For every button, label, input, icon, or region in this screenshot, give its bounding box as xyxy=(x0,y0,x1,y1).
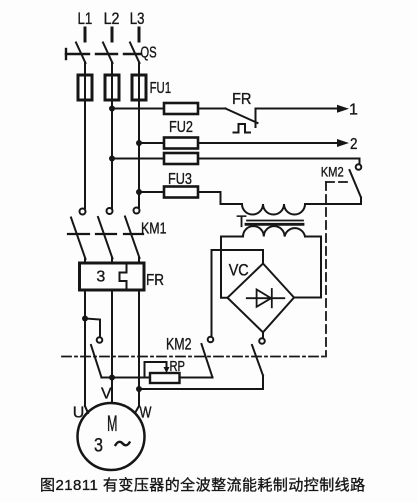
node junction L3 line2 xyxy=(136,140,142,146)
fuse FU2a on line1 xyxy=(164,103,198,114)
rheostat RP tap xyxy=(145,362,167,378)
wire line3 to KM2 contact xyxy=(198,159,360,165)
contact KM2 bottom-right blade xyxy=(252,345,263,376)
svg-text:VC: VC xyxy=(229,262,249,280)
wire line2 left xyxy=(139,142,164,144)
rectifier VC bridge diamond xyxy=(228,264,295,333)
svg-text:L3: L3 xyxy=(130,10,145,28)
relay FR thermal box xyxy=(80,263,145,290)
contactor KM1 pole 3 blade xyxy=(125,217,140,259)
wire U lead into motor xyxy=(85,406,88,413)
arrow terminal 1 xyxy=(337,105,349,113)
wire line4 left xyxy=(139,191,164,193)
wire L1 top stub xyxy=(84,28,87,41)
svg-text:L2: L2 xyxy=(104,10,120,28)
svg-text:FU1: FU1 xyxy=(150,80,172,97)
node junction U braking branch xyxy=(82,316,88,322)
wire line1 fuse to FR contact xyxy=(198,108,226,110)
switch QS pole 2 blade xyxy=(103,43,113,64)
wire W phase below FR box xyxy=(138,290,140,406)
node junction L3 line4 xyxy=(136,189,142,195)
wire L3 FU1 to KM1 xyxy=(138,100,140,207)
contactor KM1 pole 2 blade xyxy=(98,217,113,259)
wire KM1 to FR box pole1 xyxy=(84,259,86,263)
wire line4 step to transformer primary xyxy=(198,192,242,204)
wire braking rail right xyxy=(180,377,213,379)
svg-text:图21811 有变压器的全波整流能耗制动控制线路: 图21811 有变压器的全波整流能耗制动控制线路 xyxy=(40,476,366,494)
svg-text:KM2: KM2 xyxy=(166,336,192,354)
node junction L2 line1 xyxy=(109,106,115,112)
wire dash-dot KM2 linkage bottom xyxy=(62,356,326,358)
fuse FU3b on line4 xyxy=(164,187,198,198)
wire L3 QS to FU1 xyxy=(138,63,140,76)
contact KM2 bottom-left terminal circle xyxy=(97,337,103,343)
wire line2 to arrow 2 xyxy=(198,142,339,144)
fuse FU1 pole 3 xyxy=(132,75,146,100)
switch QS linkage bar xyxy=(66,49,141,59)
contact FR normally-closed blade xyxy=(226,109,258,124)
arrow terminal 2 xyxy=(337,139,349,147)
wire KM1 to FR box pole2 xyxy=(111,259,113,264)
wire KM2 right blade to W rail xyxy=(139,376,263,390)
wire bridge DC+ top corner to KM2 middle contact xyxy=(212,250,264,337)
svg-text:2: 2 xyxy=(350,136,358,153)
switch QS pole 3 blade xyxy=(130,43,140,64)
svg-text:W: W xyxy=(140,405,153,422)
svg-text:KM2: KM2 xyxy=(321,164,344,180)
contact FR thermal element symbol xyxy=(234,124,251,133)
diode inside bridge xyxy=(247,297,284,299)
svg-text:QS: QS xyxy=(140,45,156,62)
wire branch U to KM2 left contact xyxy=(85,319,100,338)
wire secondary left to bridge left corner xyxy=(221,237,243,298)
contactor KM1 pole 1 blade xyxy=(71,218,86,260)
wire V phase below FR box xyxy=(111,290,113,403)
contact KM2 bottom-left blade xyxy=(91,345,102,378)
wire KM1 to FR box pole3 xyxy=(138,258,140,263)
label tilde xyxy=(116,442,130,445)
contactor KM1 linkage dashes xyxy=(68,233,143,235)
contact KM2 bottom-middle terminal circle xyxy=(208,337,214,343)
wire secondary right to bridge right corner xyxy=(294,237,321,298)
wire L1 FU1 to KM1 xyxy=(84,100,86,208)
svg-text:FU2: FU2 xyxy=(169,119,193,136)
wire L3 top stub xyxy=(138,28,141,41)
fuse FU1 pole 2 xyxy=(105,75,119,100)
fuse FU2b on line2 xyxy=(164,138,198,149)
switch QS pole 1 blade xyxy=(76,43,86,64)
svg-text:L1: L1 xyxy=(78,10,93,28)
svg-text:U: U xyxy=(73,405,85,422)
wire U phase below FR box xyxy=(84,290,86,406)
wire braking rail left xyxy=(102,377,151,379)
wire line1 to arrow 1 xyxy=(256,108,340,110)
wire line1 left xyxy=(112,108,164,110)
relay FR heater element symbol xyxy=(120,266,127,289)
wire L2 top stub xyxy=(111,28,114,41)
wire line3 left xyxy=(112,158,164,160)
node junction W rail xyxy=(136,386,142,392)
fuse FU3a on line3 xyxy=(164,153,198,164)
svg-text:RP: RP xyxy=(170,358,186,375)
wire L1 QS to FU1 xyxy=(84,63,86,76)
contact KM2 bottom-right terminal circle xyxy=(259,338,265,344)
wire dashed KM2 linkage vertical xyxy=(325,182,327,357)
svg-text:3: 3 xyxy=(94,434,103,456)
wire L2 QS to FU1 xyxy=(111,63,113,76)
contact KM2 bottom-middle blade xyxy=(202,344,213,378)
wire W lead into motor xyxy=(135,406,139,413)
motor M circle xyxy=(78,403,145,470)
svg-text:FR: FR xyxy=(146,272,164,289)
fuse FU1 pole 1 xyxy=(78,75,92,100)
svg-text:KM1: KM1 xyxy=(141,221,167,238)
rheostat RP body xyxy=(150,373,180,383)
svg-text:M: M xyxy=(107,411,118,436)
contactor KM1 pole 2 terminal circle xyxy=(107,208,113,214)
svg-text:3: 3 xyxy=(96,269,105,286)
svg-text:FR: FR xyxy=(232,91,252,108)
svg-text:V: V xyxy=(101,386,112,403)
node junction L2 line3 xyxy=(109,156,115,162)
wire dashed KM2 linkage horizontal xyxy=(326,181,348,183)
node junction V rail xyxy=(109,375,115,381)
transformer T secondary winding xyxy=(243,226,305,236)
contactor KM1 pole 1 terminal circle xyxy=(80,209,86,215)
contact FR fixed terminal tick xyxy=(255,109,257,128)
transformer T core lines xyxy=(247,220,303,222)
contact KM2 top blade xyxy=(350,170,362,198)
transformer T primary winding xyxy=(242,204,305,215)
contact KM2 top terminal circle xyxy=(356,164,362,170)
svg-text:T: T xyxy=(237,213,247,231)
wire bridge DC- bottom corner down xyxy=(262,332,264,338)
svg-text:1: 1 xyxy=(349,102,358,119)
wire KM2 top to transformer primary right xyxy=(305,198,361,205)
wire L2 FU1 to KM1 xyxy=(111,100,113,208)
contactor KM1 pole 3 terminal circle xyxy=(134,208,140,214)
